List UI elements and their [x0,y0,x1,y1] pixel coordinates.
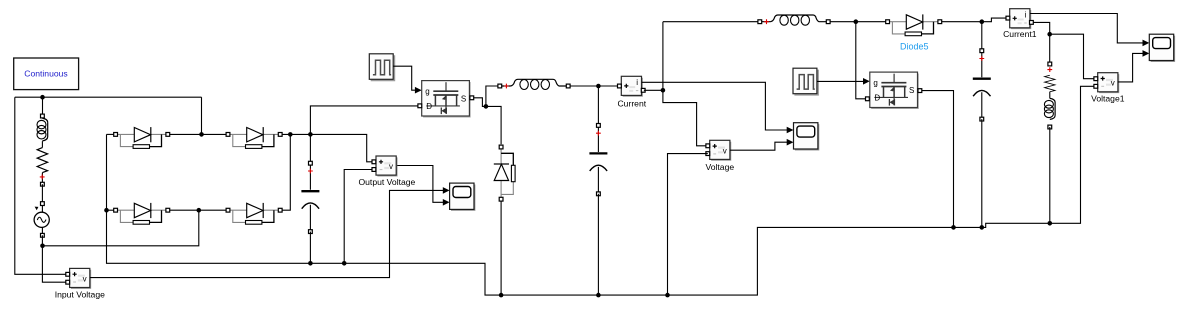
wire Diode5 to output node [942,18,1006,22]
Pulse Generator 1 [369,54,394,81]
svg-text:Voltage1: Voltage1 [1091,94,1125,104]
capacitor C2 drop [597,86,599,125]
junction freewheel diode bottom rail [499,293,504,298]
wire bottom row between diodes [170,209,226,211]
diode D3 (bridge bottom-left) [114,203,170,224]
svg-text:Continuous: Continuous [24,69,67,79]
junction C2 bottom rail [596,293,601,298]
wire DC bus node up and to MOSFET D [310,106,417,134]
wire RL to AC source [41,184,43,204]
wire pulse1 to MOSFET gate [393,66,415,90]
wire diode bottom to rail [500,201,502,295]
inductor L2 [758,15,830,25]
smoothing inductor L1 [498,79,570,89]
AC voltage source [34,202,49,238]
junction C1 bottom rail [308,261,313,266]
wire MOSFET1 S to node [474,86,501,144]
junction load branch bottom rail [1048,221,1053,226]
wire Input Voltage v to Scope in1 [90,190,443,277]
junction Voltage1 plus tap [1047,32,1052,37]
stub to diode D1 [107,133,114,135]
junction C2 top [596,84,601,89]
load RL branch [1044,62,1055,129]
wire to bridge top mid [201,97,203,134]
junction AC bottom node [40,244,45,249]
wire pulse2 to MOSFET2 gate [817,80,864,82]
wire C1 bottom to rail [309,232,311,264]
MOSFET Q1 [418,81,474,117]
series RL branch (source impedance) [37,114,48,186]
wire MOSFET2 S down to rail [922,91,954,228]
Voltage measurement block [705,140,734,172]
wire L1 to Current + [570,85,617,87]
svg-text:Current1: Current1 [1003,29,1037,39]
diode D4 (bridge bottom-right) [226,203,282,224]
junction Voltage minus rail [665,293,670,298]
wire left rail to Input Voltage + [15,97,66,274]
MOSFET Q2 [866,72,922,108]
wire Output Voltage v to Scope in2 [397,166,443,203]
junction bridge bottom midpoint [197,208,202,213]
wire Voltage1 v to Scope3 in2 [1118,53,1143,82]
junction C3 bottom rail [980,225,985,230]
Output Voltage measurement block [358,156,415,187]
Scope 3 [1149,34,1174,61]
junction C1 top [308,132,313,137]
wire top-left horizontal [15,96,202,98]
diode D2 (bridge top-right) [226,127,282,148]
Scope (Output/Input voltage) [450,183,475,210]
junction bridge plus output [288,132,293,137]
wire Current i to Scope1 in1 [642,82,787,130]
junction AC top node [40,95,45,100]
Voltage1 measurement block [1091,73,1125,104]
powergui block Continuous [14,58,79,90]
svg-text:Voltage: Voltage [705,162,734,172]
wire Current - to node [644,22,706,146]
wire Voltage - down to rail [668,154,708,296]
junction Current minus node [661,88,666,93]
wire C3 bottom to rail [981,119,983,227]
junction MOSFET2 drain tap [854,19,859,24]
wire node down to capacitor C1 [309,134,311,163]
junction MOSFET2 source rail [951,225,956,230]
wire Current1 i to Scope3 in1 [1030,14,1143,43]
wire AC bottom to bridge bottom mid [42,210,198,282]
Current1 measurement block [1003,9,1037,40]
wire RL load bottom to rail [1049,127,1051,223]
diode Diode5 [886,14,942,51]
Input Voltage measurement block [55,268,105,299]
wire C2 bottom to rail [597,194,599,295]
wire Current1 - down to load branch [1034,22,1050,64]
wire Voltage v to Scope2 in2 [730,142,787,150]
Current measurement block [617,76,646,108]
junction MOSFET1 source node [484,104,489,109]
wire bridge output to Output Voltage + [282,134,372,161]
svg-text:Diode5: Diode5 [900,42,929,52]
capacitor C1 [301,161,319,233]
junction bridge top midpoint [199,132,204,137]
wire Output Voltage - to rail [344,170,372,264]
junction bridge minus rail [104,208,109,213]
stub to diode D3 [107,209,114,211]
wire node down to capacitor C3 [981,22,983,51]
freewheeling diode (vertical) [494,145,515,201]
wire node to Voltage1 + [1050,34,1094,78]
capacitor C2 [589,124,607,196]
bridge left rail / DC minus rail [107,86,1094,295]
junction Output Voltage minus rail [342,261,347,266]
Pulse Generator 2 [793,68,818,95]
svg-text:Input Voltage: Input Voltage [55,289,105,299]
svg-text:Output Voltage: Output Voltage [358,177,415,187]
junction C3 top [980,19,985,24]
svg-text:Current: Current [617,99,646,109]
wire AC top drop [42,97,44,116]
wire top row between diodes [170,133,226,135]
Scope 2 [794,123,819,150]
diode D1 (bridge top-left) [114,127,170,148]
wire bridge bottom-right up to output node [282,134,290,210]
capacitor C3 [973,49,991,121]
wire top feeder to boost inductor L2 [663,21,758,23]
wire L2 to Diode5 with MOSFET2 tap [830,22,885,99]
